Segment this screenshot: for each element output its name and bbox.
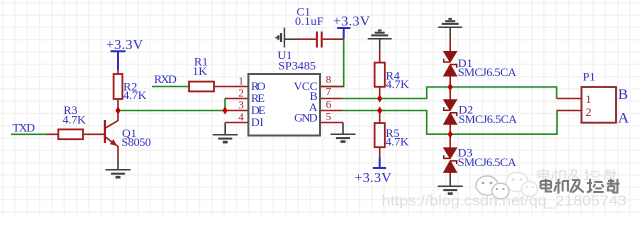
svg-text:+3.3V: +3.3V	[355, 171, 392, 186]
svg-text:2: 2	[586, 105, 592, 119]
svg-text:SMCJ6.5CA: SMCJ6.5CA	[458, 155, 517, 169]
svg-text:S8050: S8050	[122, 135, 152, 149]
svg-text:SMCJ6.5CA: SMCJ6.5CA	[459, 112, 518, 126]
svg-text:4.7K: 4.7K	[63, 113, 87, 127]
svg-text:0.1uF: 0.1uF	[295, 14, 324, 28]
svg-text:8: 8	[326, 74, 332, 86]
svg-text:6: 6	[326, 99, 332, 111]
svg-text:7: 7	[326, 86, 332, 98]
svg-text:1: 1	[238, 76, 244, 88]
svg-text:5: 5	[326, 111, 332, 123]
svg-text:SMCJ6.5CA: SMCJ6.5CA	[458, 65, 517, 79]
svg-text:https://blog.csdn.net/qq_21805: https://blog.csdn.net/qq_21805743	[382, 193, 627, 210]
svg-text:4.7K: 4.7K	[123, 88, 147, 102]
svg-text:P1: P1	[583, 69, 596, 83]
svg-text:+3.3V: +3.3V	[333, 14, 370, 29]
svg-text:GND: GND	[294, 111, 318, 125]
svg-text:1K: 1K	[193, 64, 208, 78]
svg-text:+3.3V: +3.3V	[106, 38, 143, 53]
svg-text:2: 2	[238, 88, 244, 100]
svg-text:TXD: TXD	[13, 120, 36, 134]
svg-text:SP3485: SP3485	[278, 59, 316, 73]
svg-text:4.7K: 4.7K	[386, 135, 410, 149]
svg-text:3: 3	[238, 100, 244, 112]
svg-text:RXD: RXD	[154, 72, 177, 86]
svg-text:4: 4	[238, 112, 244, 124]
svg-text:4.7K: 4.7K	[386, 77, 410, 91]
svg-text:DI: DI	[251, 115, 264, 129]
svg-text:A: A	[618, 110, 629, 126]
svg-text:B: B	[618, 87, 628, 103]
svg-text:1: 1	[586, 92, 592, 106]
